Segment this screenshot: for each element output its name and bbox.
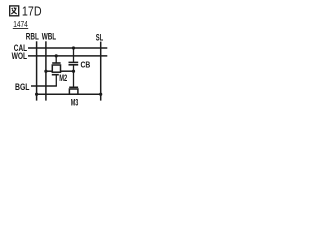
node dot SL / M3 [99, 93, 102, 96]
M2 source wire to WBL [46, 70, 52, 72]
node dot WBL / M2 [44, 70, 47, 73]
figure title 図17D [10, 4, 42, 19]
svg-text:CB: CB [81, 60, 91, 70]
M2 back gate bar [52, 74, 59, 76]
node dot M2 gate / WOL [55, 54, 58, 57]
storage node SN wire down to M3 gate [73, 65, 75, 88]
wire SL (vertical source line) [100, 42, 102, 101]
transistor M3 [69, 87, 78, 107]
M3 channel box [69, 89, 78, 94]
wire CAL (horizontal) [28, 47, 107, 49]
CB lead to CAL [73, 48, 75, 62]
node dot RBL / M3 [35, 93, 38, 96]
wire WBL (vertical bit line) [45, 41, 47, 100]
wire WOL (horizontal) [28, 55, 107, 57]
svg-text:M2: M2 [59, 73, 67, 83]
transistor M2 [44, 54, 73, 86]
M2 back gate lead to BGL [55, 75, 57, 86]
node dot CB / CAL [72, 46, 75, 49]
M2 gate lead [55, 56, 57, 63]
svg-text:1474: 1474 [13, 20, 28, 29]
wire RBL (vertical bit line) [36, 41, 38, 100]
svg-text:SL: SL [96, 32, 104, 42]
svg-text:BGL: BGL [15, 82, 30, 92]
wire BGL (horizontal to M2 back gate) [31, 85, 57, 87]
node dot SN [72, 70, 75, 73]
svg-text:WOL: WOL [12, 51, 28, 61]
M2 channel box [52, 65, 60, 72]
capacitor CB [69, 46, 91, 69]
svg-text:RBL: RBL [26, 32, 39, 42]
svg-text:WBL: WBL [42, 32, 57, 42]
reference numeral 1474 (underlined) [13, 20, 28, 29]
M2 gate bar [52, 62, 60, 64]
M3 gate bar [69, 86, 78, 88]
CB bottom plate [69, 64, 79, 66]
svg-text:17D: 17D [22, 4, 42, 19]
CB top plate [69, 61, 79, 63]
M2 drain wire to storage node [61, 70, 74, 72]
wire M3 source/drain rail RBL to SL [37, 93, 101, 95]
svg-text:M3: M3 [71, 97, 79, 107]
